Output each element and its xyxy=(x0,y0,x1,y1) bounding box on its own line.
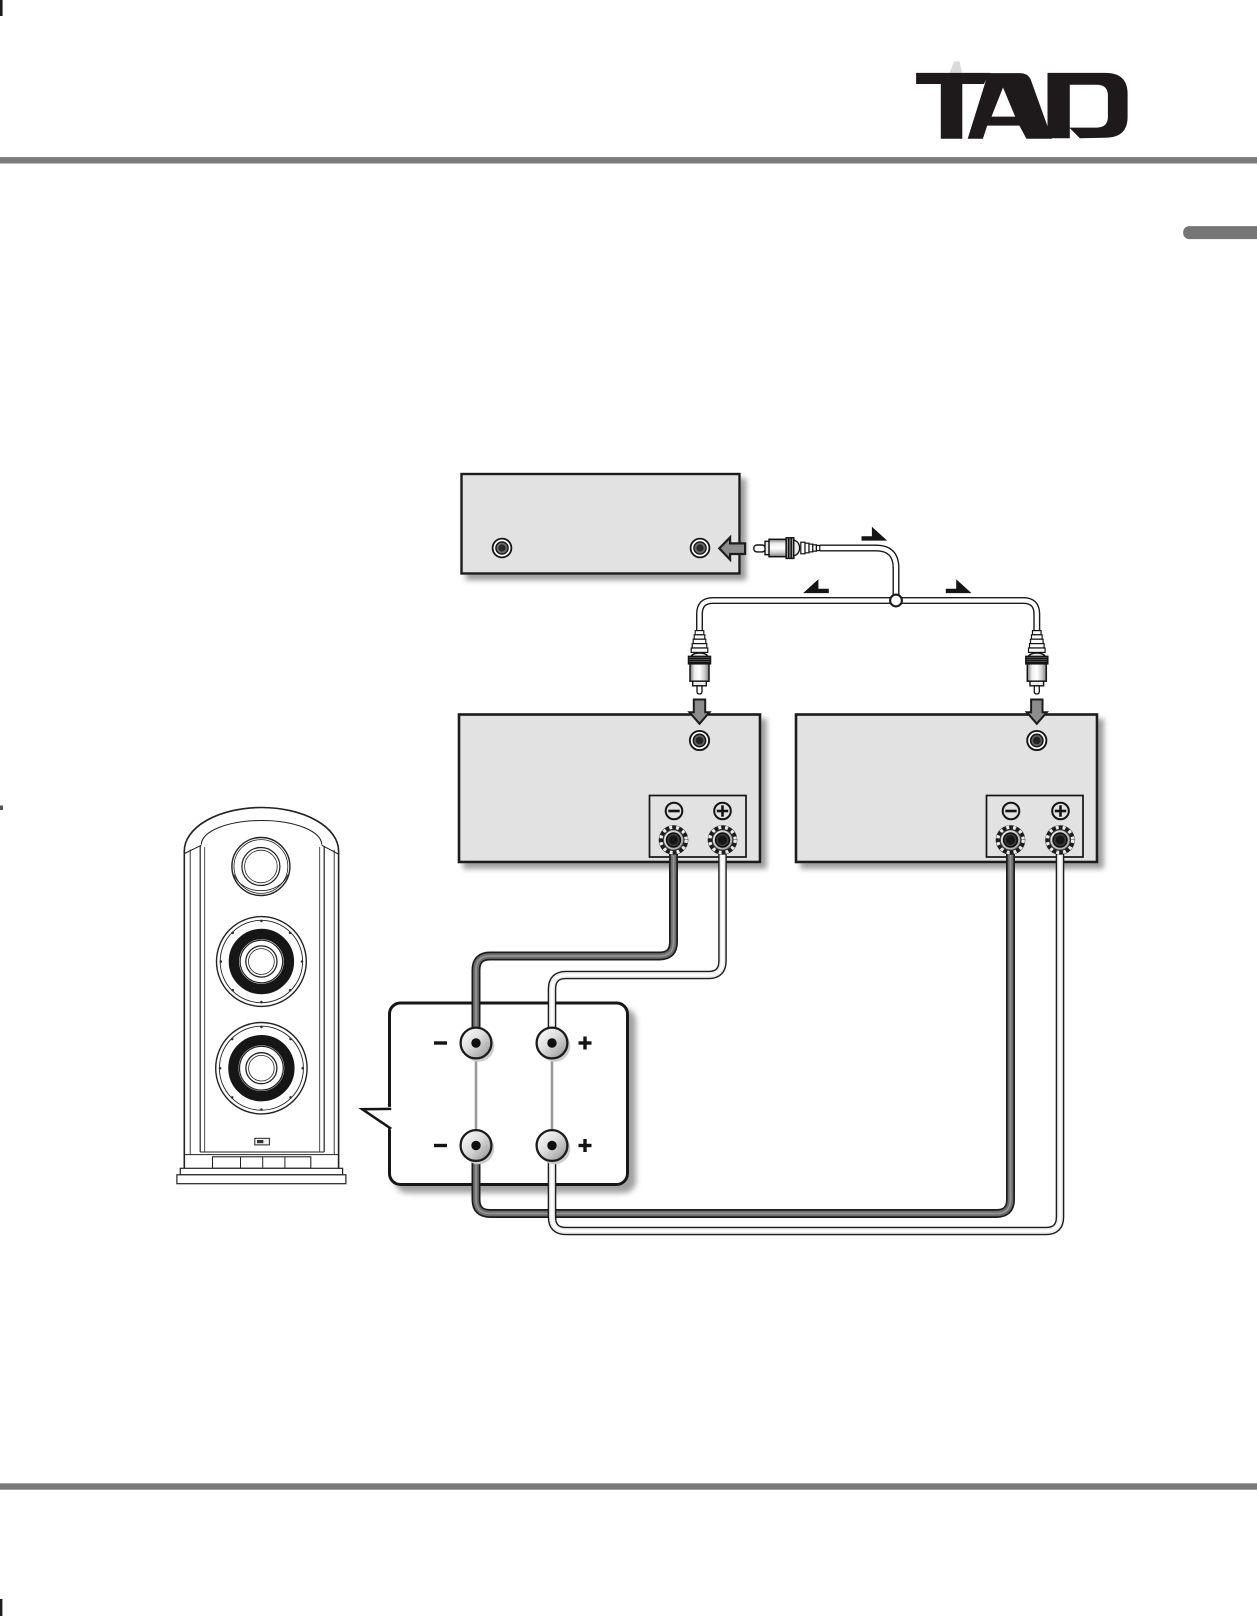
amp R plus symbol xyxy=(1052,803,1069,820)
signal direction arrow (right, above lower run right branch) xyxy=(946,579,972,593)
amp L input jack xyxy=(690,731,709,750)
speaker cable negative (bottom-left terminal to amp R) xyxy=(476,847,1011,1214)
power amp R (rear panel) xyxy=(796,715,1097,863)
amp L plus symbol xyxy=(714,803,731,820)
top horizontal rule xyxy=(0,157,1257,163)
TAD logo letter A xyxy=(968,73,1052,139)
amp R binding post plus xyxy=(1045,825,1075,855)
preamp unit (rear panel) xyxy=(462,474,740,574)
amp R binding post minus xyxy=(996,825,1026,855)
insert arrow into amp R jack (down-pointing) xyxy=(1027,700,1047,724)
amp R minus symbol xyxy=(1003,803,1020,820)
speaker cable positive (bottom-right terminal to amp R) xyxy=(552,847,1060,1231)
TAD logo letter T xyxy=(916,73,990,139)
speaker terminal top-left xyxy=(461,1028,495,1062)
amp L speaker terminal panel xyxy=(650,796,747,858)
speaker terminal bottom-left xyxy=(461,1130,495,1164)
speaker terminal callout bubble xyxy=(361,1003,628,1185)
amp R input jack xyxy=(1027,731,1046,750)
amp R speaker terminal panel xyxy=(987,796,1084,858)
preamp RCA jack left xyxy=(493,539,512,558)
speaker terminal top-right xyxy=(537,1028,571,1062)
jumper line between left terminals xyxy=(475,1043,478,1146)
right margin tab xyxy=(1183,226,1257,239)
interconnect cable lower run (to both amps) xyxy=(700,601,1037,635)
signal direction arrow (left, above lower run left branch) xyxy=(803,579,829,593)
TAD logo A apex ghost above bar xyxy=(950,62,963,73)
page edge mark bottom-left xyxy=(0,1599,2,1616)
speaker cable positive (amp L to top-right terminal) xyxy=(552,847,723,1036)
bottom horizontal rule xyxy=(0,1483,1257,1489)
speaker plinth xyxy=(184,1155,338,1169)
RCA plug P2 (vertical, into amp L) xyxy=(689,631,711,694)
speaker terminal bottom-right xyxy=(537,1130,571,1164)
TAD logo letter D xyxy=(1048,73,1128,138)
callout minus label (top) xyxy=(434,1041,447,1044)
speaker cable negative (amp L to top-left terminal) xyxy=(476,847,674,1036)
insert arrow into amp L jack (down-pointing) xyxy=(690,700,710,724)
page edge dot left-middle xyxy=(0,806,3,811)
preamp RCA output jack right xyxy=(691,539,710,558)
speaker woofer xyxy=(216,1022,307,1113)
speaker midrange driver xyxy=(217,917,307,1007)
power amp L (rear panel) xyxy=(459,715,760,863)
signal direction arrow (right, above upper cable) xyxy=(862,527,888,541)
callout minus label (bottom) xyxy=(434,1144,447,1147)
callout plus label (bottom) xyxy=(579,1139,592,1152)
amp L binding post plus xyxy=(708,825,738,855)
speaker badge xyxy=(255,1138,270,1145)
cable junction node xyxy=(890,595,902,607)
interconnect cable from plug P1 to junction xyxy=(820,548,896,600)
page edge mark top-left xyxy=(0,0,3,16)
speaker base xyxy=(177,1168,346,1183)
amp L minus symbol xyxy=(666,803,683,820)
speaker tweeter xyxy=(232,838,290,896)
amp L binding post minus xyxy=(659,825,689,855)
callout plus label (top) xyxy=(579,1037,592,1050)
RCA plug P3 (vertical, into amp R) xyxy=(1026,631,1048,694)
loudspeaker cabinet outline xyxy=(184,808,338,1169)
jumper line between right terminals xyxy=(551,1043,554,1146)
RCA plug P1 (horizontal, into preamp) xyxy=(754,538,820,559)
insert arrow into preamp jack (left-pointing) xyxy=(719,537,745,559)
